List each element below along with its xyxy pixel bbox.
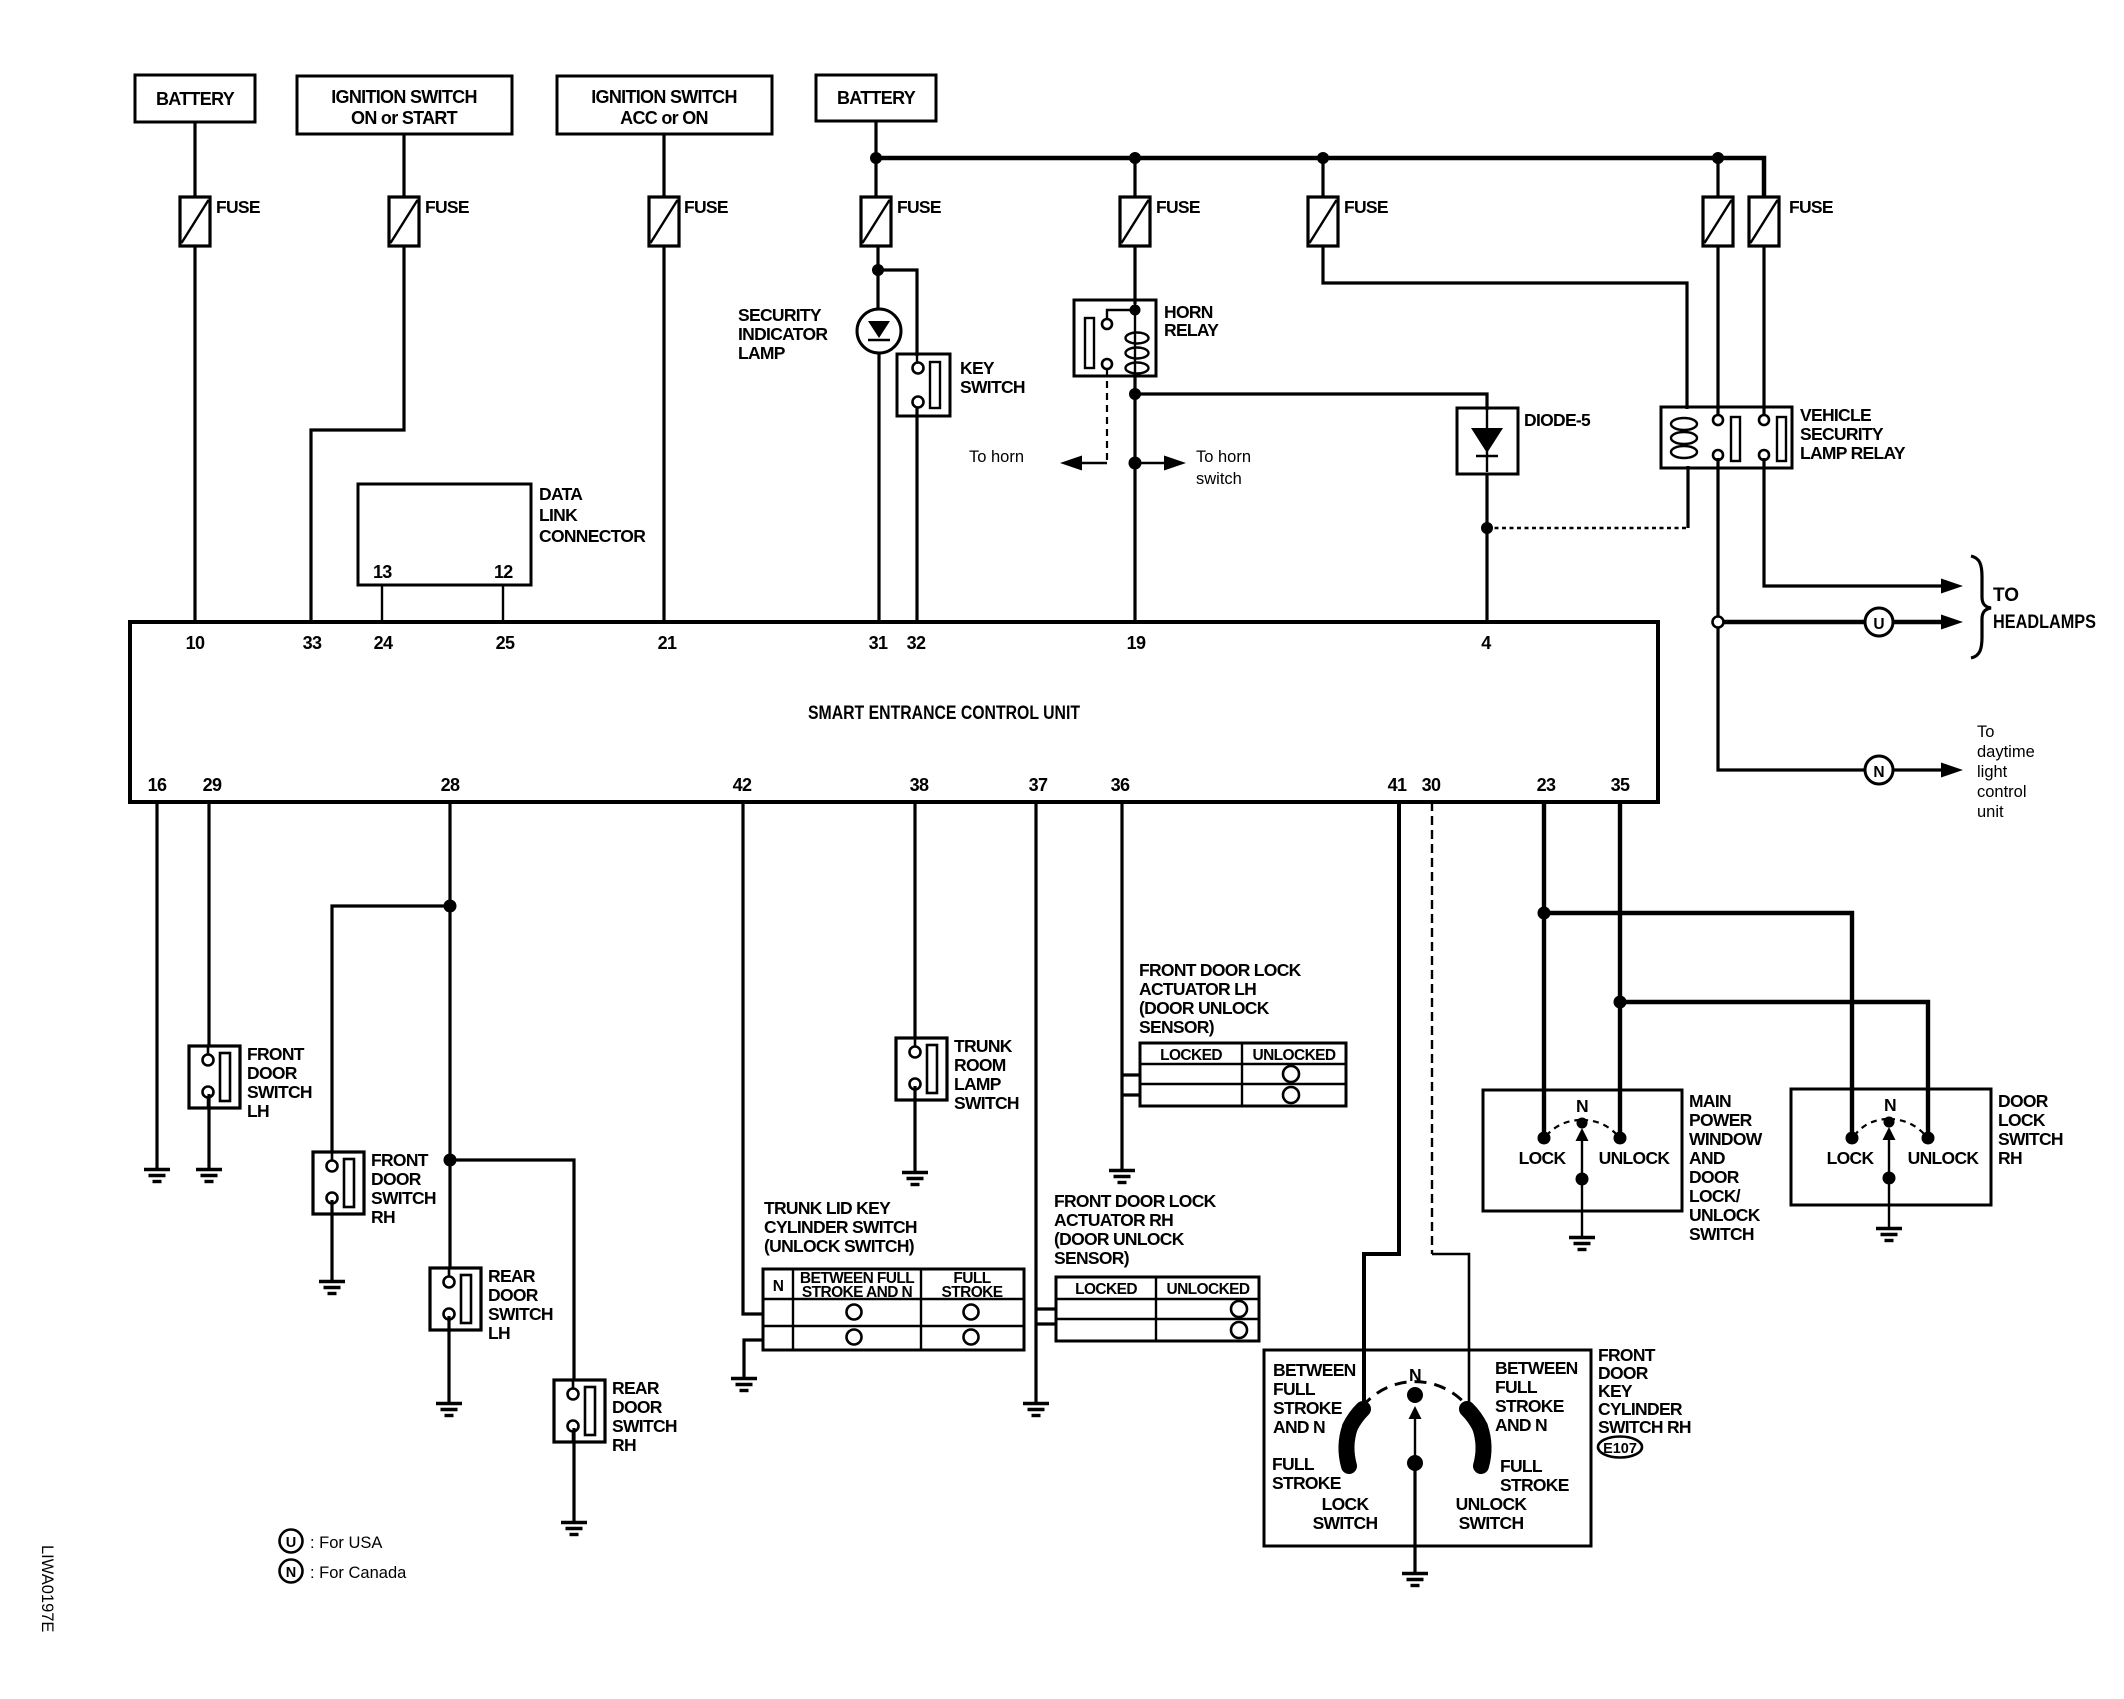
node battery bus junction	[870, 152, 882, 164]
svg-text:DATA: DATA	[539, 484, 583, 504]
svg-text:LH: LH	[247, 1101, 269, 1121]
svg-text:N: N	[1884, 1095, 1896, 1115]
svg-text:DOOR: DOOR	[247, 1063, 298, 1083]
wire dotted junction to relay coil	[1487, 527, 1688, 529]
svg-text:N: N	[773, 1278, 784, 1295]
wire fuse F1 to pin 10	[193, 246, 196, 624]
wire stub actuator LH row1	[1122, 1073, 1140, 1076]
svg-text:UNLOCKED: UNLOCKED	[1166, 1281, 1249, 1298]
key cylinder pointer	[1407, 1406, 1423, 1471]
svg-text:24: 24	[374, 633, 393, 653]
ground pin 37	[1023, 1404, 1049, 1416]
svg-text:LOCK: LOCK	[1322, 1494, 1370, 1514]
wire feed to door lock switch RH lock	[1544, 913, 1852, 1138]
svg-text:ACTUATOR RH: ACTUATOR RH	[1054, 1210, 1173, 1230]
svg-text:10: 10	[186, 633, 205, 653]
svg-text:LIWA0197E: LIWA0197E	[38, 1545, 56, 1632]
battery B2 box	[816, 75, 936, 121]
svg-text:UNLOCK: UNLOCK	[1599, 1148, 1671, 1168]
svg-text:STROKE AND N: STROKE AND N	[802, 1284, 913, 1301]
svg-text:FUSE: FUSE	[897, 197, 941, 217]
svg-text:FULL: FULL	[1495, 1377, 1538, 1397]
wire branch to rear door switch RH	[450, 1160, 574, 1382]
svg-text:CONNECTOR: CONNECTOR	[539, 526, 646, 546]
svg-text:RH: RH	[612, 1435, 636, 1455]
wire fuse F8 to relay contact	[1762, 246, 1765, 416]
svg-text:FRONT: FRONT	[1598, 1345, 1656, 1365]
svg-text:13: 13	[373, 562, 392, 582]
wire bus to fuse F7	[1716, 158, 1719, 197]
svg-text:KEY: KEY	[1598, 1381, 1633, 1401]
front door switch RH	[313, 1150, 436, 1227]
wire pin 42 to trunk lid key table	[743, 802, 763, 1314]
door lock switch RH	[1791, 1089, 1991, 1205]
svg-text:SECURITY: SECURITY	[738, 305, 822, 325]
svg-text:FUSE: FUSE	[1344, 197, 1388, 217]
trunk lid key cylinder switch table	[763, 1269, 1024, 1350]
svg-text:STROKE: STROKE	[1272, 1473, 1341, 1493]
svg-text:light: light	[1977, 763, 2008, 781]
ground rear door switch RH	[561, 1523, 587, 1535]
front door lock actuator LH label	[1139, 960, 1302, 1037]
svg-text:switch: switch	[1196, 470, 1242, 488]
ground front door switch LH	[196, 1170, 222, 1182]
wire branch to front door switch RH	[332, 906, 450, 1154]
svg-text:32: 32	[907, 633, 926, 653]
front door key cylinder switch RH box	[1264, 1350, 1591, 1546]
label lock switch	[1313, 1494, 1378, 1533]
label between full stroke right	[1495, 1358, 1578, 1435]
svg-text:(UNLOCK SWITCH): (UNLOCK SWITCH)	[764, 1236, 914, 1256]
svg-text:SWITCH RH: SWITCH RH	[1598, 1417, 1691, 1437]
wire dashed horn relay contact	[1106, 369, 1108, 463]
svg-text:SENSOR): SENSOR)	[1054, 1248, 1129, 1268]
key cylinder lock stroke arc	[1350, 1409, 1363, 1427]
svg-text:IGNITION SWITCH: IGNITION SWITCH	[591, 87, 737, 107]
svg-text:FULL: FULL	[1272, 1454, 1315, 1474]
svg-text:25: 25	[496, 633, 515, 653]
wire pin 37 down	[1034, 802, 1037, 1402]
svg-text:DOOR: DOOR	[1998, 1091, 2049, 1111]
ground key cylinder switch	[1402, 1574, 1428, 1586]
wire stub actuator RH row1	[1036, 1307, 1056, 1310]
svg-text:FRONT: FRONT	[371, 1150, 429, 1170]
svg-text:LOCKED: LOCKED	[1160, 1047, 1222, 1064]
svg-text:ON or START: ON or START	[351, 108, 458, 128]
svg-text:N: N	[1409, 1365, 1421, 1385]
svg-text:U: U	[286, 1535, 296, 1551]
key cylinder N node	[1407, 1365, 1423, 1403]
svg-text:To horn: To horn	[969, 448, 1024, 466]
ground pin 16	[144, 1170, 170, 1182]
svg-text:daytime: daytime	[1977, 743, 2035, 761]
wire security lamp to pin 31	[877, 353, 880, 624]
svg-text:HEADLAMPS: HEADLAMPS	[1993, 612, 2096, 633]
svg-text:AND: AND	[1689, 1148, 1725, 1168]
wire battery B1 to fuse F1	[193, 122, 196, 197]
fuse F6	[1308, 197, 1388, 246]
svg-text:REAR: REAR	[488, 1266, 536, 1286]
svg-text:FUSE: FUSE	[1789, 197, 1833, 217]
wire rear door switch RH to ground	[572, 1428, 575, 1521]
wire power bus	[876, 158, 1764, 197]
svg-text:LOCKED: LOCKED	[1075, 1281, 1137, 1298]
label between full stroke left	[1273, 1360, 1356, 1437]
svg-text:REAR: REAR	[612, 1378, 660, 1398]
wire relay contact to U node	[1716, 458, 1719, 617]
svg-text:FUSE: FUSE	[425, 197, 469, 217]
label front door key cylinder switch RH	[1598, 1345, 1691, 1437]
svg-text:STROKE: STROKE	[942, 1284, 1003, 1301]
horn relay	[1074, 300, 1219, 376]
svg-text:STROKE: STROKE	[1273, 1398, 1342, 1418]
svg-text:AND N: AND N	[1273, 1417, 1325, 1437]
wire pin 35 to main power window unlock	[1618, 802, 1622, 1138]
svg-text:IGNITION SWITCH: IGNITION SWITCH	[331, 87, 477, 107]
svg-text:HORN: HORN	[1164, 302, 1213, 322]
key cylinder unlock stroke blob	[1480, 1427, 1483, 1466]
label main power window switch	[1689, 1091, 1763, 1244]
svg-text:23: 23	[1537, 775, 1556, 795]
svg-text:MAIN: MAIN	[1689, 1091, 1731, 1111]
wire feed to door lock switch RH unlock	[1620, 1002, 1928, 1138]
wire key cylinder to ground	[1413, 1463, 1416, 1572]
svg-text:SWITCH: SWITCH	[488, 1304, 553, 1324]
svg-text:LOCK: LOCK	[1998, 1110, 2046, 1130]
svg-text:19: 19	[1127, 633, 1146, 653]
ground rear door switch LH	[436, 1404, 462, 1416]
wire pin 28 down	[448, 802, 451, 1270]
wire pin 36 down	[1120, 802, 1123, 1169]
svg-text:: For USA: : For USA	[310, 1534, 382, 1552]
svg-text:LAMP: LAMP	[954, 1074, 1002, 1094]
svg-text:35: 35	[1611, 775, 1630, 795]
svg-text:LOCK: LOCK	[1519, 1148, 1567, 1168]
svg-text:DOOR: DOOR	[488, 1285, 539, 1305]
wire trunk room lamp switch to ground	[913, 1086, 916, 1171]
label to daytime light control unit	[1977, 723, 2035, 821]
battery B1 box	[135, 75, 255, 122]
svg-text:DOOR: DOOR	[1598, 1363, 1649, 1383]
trunk room lamp switch	[896, 1036, 1019, 1113]
svg-text:N: N	[1873, 764, 1884, 781]
svg-text:CYLINDER SWITCH: CYLINDER SWITCH	[764, 1217, 917, 1237]
wire ignition ON/START to fuse F2	[402, 134, 405, 197]
wire fuse F2 to pin 33	[311, 246, 404, 624]
svg-text:To: To	[1977, 723, 1994, 741]
wire stub actuator RH row2	[1036, 1322, 1056, 1325]
connector E107	[1598, 1437, 1642, 1458]
key cylinder unlock stroke arc	[1467, 1409, 1480, 1427]
node junction door lock switch feed 2	[1614, 996, 1627, 1009]
svg-text:RH: RH	[371, 1207, 395, 1227]
wire diode to pin 4	[1485, 474, 1488, 624]
data link connector box	[358, 484, 646, 585]
ground trunk room lamp switch	[902, 1173, 928, 1185]
node bus junction at relay coil fuse	[1317, 152, 1329, 164]
wire stub actuator LH row2	[1122, 1093, 1140, 1096]
svg-text:FULL: FULL	[1500, 1456, 1543, 1476]
svg-text:DOOR: DOOR	[612, 1397, 663, 1417]
svg-text:SECURITY: SECURITY	[1800, 424, 1884, 444]
node junction rear door switch RH	[444, 1154, 457, 1167]
fuse F3	[649, 197, 728, 246]
svg-text:UNLOCKED: UNLOCKED	[1252, 1047, 1335, 1064]
smart entrance control unit box	[130, 622, 1658, 802]
svg-text:SWITCH: SWITCH	[1313, 1513, 1378, 1533]
diode D5	[1457, 408, 1591, 474]
svg-text:4: 4	[1481, 633, 1491, 653]
wire pin 30 dashed to key cylinder unlock	[1432, 802, 1469, 1412]
wire trunk lid key table to ground	[744, 1340, 763, 1377]
svg-text:29: 29	[203, 775, 222, 795]
svg-text:30: 30	[1422, 775, 1441, 795]
ground trunk lid key cylinder	[731, 1379, 757, 1391]
svg-text:TRUNK: TRUNK	[954, 1036, 1013, 1056]
svg-text:FRONT: FRONT	[247, 1044, 305, 1064]
vehicle security lamp relay	[1661, 405, 1906, 468]
node open circle U junction	[1713, 617, 1724, 628]
svg-text:FULL: FULL	[1273, 1379, 1316, 1399]
svg-text:BATTERY: BATTERY	[837, 88, 916, 108]
svg-text:UNLOCK: UNLOCK	[1689, 1205, 1761, 1225]
ignition switch ACC/ON box	[557, 76, 772, 134]
svg-text:UNLOCK: UNLOCK	[1456, 1494, 1528, 1514]
svg-text:E107: E107	[1603, 1441, 1637, 1457]
svg-text:To horn: To horn	[1196, 448, 1251, 466]
svg-text:INDICATOR: INDICATOR	[738, 324, 828, 344]
svg-text:SWITCH: SWITCH	[1998, 1129, 2063, 1149]
wire main power window to ground	[1581, 1179, 1583, 1236]
wire pin 23 to main power window lock	[1542, 802, 1546, 1138]
ground front door switch RH	[319, 1282, 345, 1294]
svg-text:LH: LH	[488, 1323, 510, 1343]
svg-text:16: 16	[148, 775, 167, 795]
svg-text:LAMP: LAMP	[738, 343, 786, 363]
svg-text:TO: TO	[1993, 585, 2019, 606]
svg-text:ROOM: ROOM	[954, 1055, 1006, 1075]
node junction door lock switch feed 1	[1538, 907, 1551, 920]
wire fuse F3 to pin 21	[662, 246, 665, 624]
fuse F2	[389, 197, 469, 246]
front door lock actuator RH table	[1056, 1277, 1259, 1341]
label full stroke left	[1272, 1454, 1341, 1493]
svg-text:SWITCH: SWITCH	[1689, 1224, 1754, 1244]
legend U for USA	[280, 1530, 383, 1553]
svg-text:: For Canada: : For Canada	[310, 1564, 407, 1582]
wire rear door switch LH to ground	[447, 1316, 450, 1402]
key cylinder lock stroke blob	[1347, 1427, 1350, 1466]
fuse F8	[1749, 197, 1833, 246]
svg-text:AND N: AND N	[1495, 1415, 1547, 1435]
fuse F4	[861, 197, 941, 246]
key cylinder dial arc dashed	[1352, 1382, 1478, 1424]
node bus junction at lamp relay fuse	[1712, 152, 1724, 164]
svg-text:SWITCH: SWITCH	[247, 1082, 312, 1102]
svg-text:SWITCH: SWITCH	[1459, 1513, 1524, 1533]
trunk lid key cylinder switch label	[764, 1198, 917, 1256]
wire front door switch LH to ground	[207, 1094, 210, 1168]
svg-text:CYLINDER: CYLINDER	[1598, 1399, 1683, 1419]
svg-text:ACTUATOR LH: ACTUATOR LH	[1139, 979, 1256, 999]
svg-text:LOCK: LOCK	[1827, 1148, 1875, 1168]
svg-text:SWITCH: SWITCH	[612, 1416, 677, 1436]
wire N line arrow	[1894, 763, 1963, 778]
ground pin 36	[1109, 1171, 1135, 1183]
svg-text:ACC or ON: ACC or ON	[620, 108, 708, 128]
rear door switch RH	[554, 1378, 677, 1455]
wire front door switch RH to ground	[330, 1200, 333, 1280]
fuse F5	[1120, 197, 1200, 246]
svg-text:DIODE-5: DIODE-5	[1524, 410, 1591, 430]
legend N for Canada	[280, 1560, 408, 1583]
svg-text:control: control	[1977, 783, 2027, 801]
svg-text:(DOOR UNLOCK: (DOOR UNLOCK	[1139, 998, 1270, 1018]
svg-text:DOOR: DOOR	[371, 1169, 422, 1189]
wire to horn arrow	[969, 448, 1107, 471]
node junction below horn relay	[1129, 388, 1141, 400]
ground door lock switch RH	[1876, 1229, 1902, 1241]
svg-text:STROKE: STROKE	[1500, 1475, 1569, 1495]
symbol U circle	[1865, 608, 1893, 636]
wire junction to diode	[1135, 394, 1487, 410]
svg-text:LINK: LINK	[539, 505, 578, 525]
wire ignition ACC/ON to fuse F3	[662, 134, 665, 197]
wire battery B2 down	[874, 121, 877, 197]
wire fuse F4 to security lamp	[876, 246, 879, 311]
front door lock actuator RH label	[1054, 1191, 1217, 1268]
ground main power window switch	[1569, 1238, 1595, 1250]
node bus junction at horn fuse	[1129, 152, 1141, 164]
wire DLC pin 12 to pin 25	[502, 585, 504, 624]
svg-text:SWITCH: SWITCH	[371, 1188, 436, 1208]
symbol N circle	[1865, 756, 1893, 784]
svg-text:VEHICLE: VEHICLE	[1800, 405, 1871, 425]
label door lock switch RH	[1998, 1091, 2063, 1168]
node junction to horn switch	[1129, 457, 1142, 470]
svg-text:BATTERY: BATTERY	[156, 89, 235, 109]
fuse F1	[180, 197, 260, 246]
wire horn relay to pin 19	[1133, 376, 1136, 624]
wire relay contact to top headlamp arrow	[1764, 458, 1963, 594]
svg-text:FUSE: FUSE	[1156, 197, 1200, 217]
wire DLC pin 13 to pin 24	[381, 585, 383, 624]
svg-text:12: 12	[494, 562, 513, 582]
svg-text:FUSE: FUSE	[684, 197, 728, 217]
svg-text:LAMP RELAY: LAMP RELAY	[1800, 443, 1906, 463]
rear door switch LH	[430, 1266, 553, 1343]
wire pin 41 to key cylinder lock	[1364, 802, 1399, 1412]
svg-text:FRONT DOOR LOCK: FRONT DOOR LOCK	[1139, 960, 1302, 980]
svg-text:31: 31	[869, 633, 888, 653]
wire fuse F7 to relay contact	[1716, 246, 1719, 416]
wire fuse F5 to horn relay	[1133, 246, 1136, 304]
ignition switch ON/START box	[297, 76, 512, 134]
svg-text:42: 42	[733, 775, 752, 795]
svg-text:DOOR: DOOR	[1689, 1167, 1740, 1187]
node key switch branch junction	[872, 264, 884, 276]
svg-text:N: N	[1576, 1096, 1588, 1116]
wire bus to fuse F5	[1133, 158, 1136, 197]
svg-text:28: 28	[441, 775, 460, 795]
svg-text:37: 37	[1029, 775, 1048, 795]
wire to horn switch arrow	[1135, 448, 1251, 488]
svg-text:POWER: POWER	[1689, 1110, 1753, 1130]
front door lock actuator LH table	[1140, 1043, 1346, 1106]
svg-text:RH: RH	[1998, 1148, 2022, 1168]
wire door lock switch RH to ground	[1888, 1178, 1890, 1227]
wire pin 16 to ground	[155, 802, 158, 1168]
svg-text:21: 21	[658, 633, 677, 653]
security indicator lamp	[738, 305, 901, 363]
wire U line to headlamps	[1724, 615, 1963, 630]
svg-text:WINDOW: WINDOW	[1689, 1129, 1763, 1149]
svg-text:N: N	[286, 1565, 296, 1581]
svg-text:33: 33	[303, 633, 322, 653]
node diode junction	[1481, 522, 1493, 534]
svg-text:unit: unit	[1977, 803, 2004, 821]
svg-text:BETWEEN: BETWEEN	[1273, 1360, 1356, 1380]
svg-text:SMART ENTRANCE CONTROL UNIT: SMART ENTRANCE CONTROL UNIT	[808, 703, 1080, 724]
svg-text:RELAY: RELAY	[1164, 320, 1219, 340]
wire bus to fuse F6	[1321, 158, 1324, 197]
wire key switch to pin 32	[915, 408, 918, 624]
brace to headlamps	[1971, 556, 2096, 658]
svg-text:TRUNK LID KEY: TRUNK LID KEY	[764, 1198, 891, 1218]
svg-text:FUSE: FUSE	[216, 197, 260, 217]
svg-text:SWITCH: SWITCH	[960, 377, 1025, 397]
wire relay coil down	[1686, 466, 1689, 528]
label full stroke right	[1500, 1456, 1569, 1495]
wire fuse F6 to relay coil	[1323, 246, 1687, 409]
svg-text:41: 41	[1388, 775, 1407, 795]
svg-text:BETWEEN: BETWEEN	[1495, 1358, 1578, 1378]
svg-text:(DOOR UNLOCK: (DOOR UNLOCK	[1054, 1229, 1185, 1249]
svg-text:SENSOR): SENSOR)	[1139, 1017, 1214, 1037]
svg-text:U: U	[1873, 616, 1884, 633]
wire pin 29 to front door switch LH	[207, 802, 210, 1048]
wire branch to key switch	[878, 270, 917, 356]
wire U node down to N line	[1718, 627, 1864, 770]
label unlock switch	[1456, 1494, 1528, 1533]
svg-text:SWITCH: SWITCH	[954, 1093, 1019, 1113]
svg-text:36: 36	[1111, 775, 1130, 795]
svg-text:FRONT DOOR LOCK: FRONT DOOR LOCK	[1054, 1191, 1217, 1211]
svg-text:STROKE: STROKE	[1495, 1396, 1564, 1416]
node junction front door switch RH	[444, 900, 457, 913]
key switch	[897, 354, 1025, 416]
fuse F7	[1703, 197, 1733, 246]
svg-text:38: 38	[910, 775, 929, 795]
front door switch LH	[189, 1044, 312, 1121]
wire pin 38 to trunk room lamp switch	[913, 802, 916, 1040]
main power window and door lock/unlock switch	[1483, 1090, 1682, 1211]
svg-text:UNLOCK: UNLOCK	[1908, 1148, 1980, 1168]
svg-text:LOCK/: LOCK/	[1689, 1186, 1741, 1206]
svg-text:KEY: KEY	[960, 358, 995, 378]
